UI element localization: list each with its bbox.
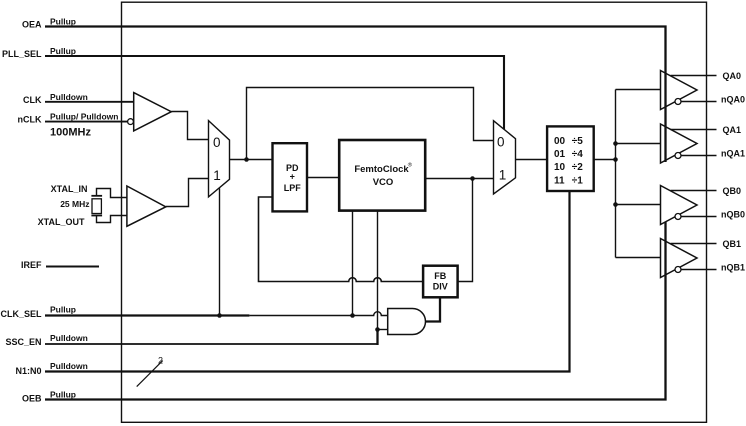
pin nCLK label [18,111,119,138]
bubble nQA0 [675,99,681,105]
svg-text:00: 00 [554,136,566,147]
pin OEB label [22,389,76,403]
wire QA0 out [671,75,717,77]
svg-text:FB: FB [434,271,446,281]
nCLK inversion bubble [128,119,134,125]
xtal oscillator buffer U2 [127,186,166,226]
wire QA1 out [671,129,717,131]
wire node A to mux M2 input 0 [247,88,494,160]
bubble nQA1 [675,153,681,159]
svg-text:QA1: QA1 [723,125,742,135]
chip boundary [122,2,707,422]
pin nQB0 label [721,209,745,219]
svg-text:FemtoClock: FemtoClock [354,164,409,175]
svg-text:QA0: QA0 [723,71,742,81]
wire bus to QA1 buffer [616,143,661,145]
wire nCLK [45,121,127,123]
pin nQA1 label [721,148,745,158]
bus width slash [137,361,163,387]
wire mux M1 output to PD [230,159,273,161]
svg-text:0: 0 [213,135,221,150]
svg-text:DIV: DIV [433,282,448,292]
svg-text:PLL_SEL: PLL_SEL [2,49,42,59]
wire U1 output to mux M1 input 0 [171,112,208,140]
pin IREF label [21,260,42,270]
wire OEB [45,222,666,400]
pin CLK_SEL label [0,305,76,319]
svg-text:CLK_SEL: CLK_SEL [0,309,42,319]
pin XTAL_OUT label [38,217,85,227]
pin QA1 label [723,125,742,135]
output buffer QB1 [661,239,698,278]
svg-text:nQB1: nQB1 [721,262,745,272]
output buffer QA1 [661,124,698,163]
svg-text:Pullup: Pullup [50,17,76,27]
FB DIV block [423,266,458,298]
svg-text:QB1: QB1 [723,239,742,249]
svg-text:nQA0: nQA0 [721,94,745,104]
svg-text:®: ® [408,162,413,169]
PD + LPF block [273,143,308,211]
svg-text:N1:N0: N1:N0 [15,366,41,376]
wire nQB1 out [681,269,717,271]
svg-text:÷4: ÷4 [572,149,583,160]
wire VCO output to mux M2 input 1 [425,178,493,180]
svg-text:OEB: OEB [22,394,42,404]
pin PLL_SEL label [2,46,76,59]
svg-text:Pullup/ Pulldown: Pullup/ Pulldown [50,111,118,121]
junction bus QA1 [613,141,618,146]
vertical B: VCO bottom to SSC_EN [377,211,379,330]
pin XTAL_IN label [51,184,88,194]
svg-text:SSC_EN: SSC_EN [5,337,41,347]
mux M2 [494,121,516,194]
crystal Y1 top plate [91,195,102,197]
svg-text:XTAL_OUT: XTAL_OUT [38,217,85,227]
svg-text:nQB0: nQB0 [721,209,745,219]
wire AND gate lower input [378,329,388,331]
mux M1 [209,121,230,197]
pin nQB1 label [721,262,745,272]
wire mux M1 select [219,188,221,315]
pin N1:N0 label [15,361,87,376]
wire output distribution bus [615,90,617,258]
wire CLK [45,101,134,103]
wire CLK_SEL thick part [45,314,249,316]
bus width label 2 [158,355,163,365]
AND gate G1 [388,309,426,335]
wire AND output to FB DIV [426,297,440,321]
pin QB0 label [723,186,742,196]
svg-text:2: 2 [158,355,163,365]
wire nQB0 out [681,216,717,218]
junction M1 select / CLK_SEL [217,313,222,318]
svg-text:Pullup: Pullup [50,305,76,315]
svg-text:QB0: QB0 [723,186,742,196]
wire mux M2 output to divider [516,159,548,161]
output divider block [547,126,594,191]
junction VCO output node [470,176,475,181]
input buffer U1 (CLK/nCLK) [134,93,172,131]
svg-text:XTAL_IN: XTAL_IN [51,184,88,194]
wire QB0 out [671,190,717,192]
junction vertical A / CLK_SEL [350,313,355,318]
svg-text:Pullup: Pullup [50,46,76,56]
wire nQA1 out [681,155,717,157]
wire bus to QB0 buffer [616,204,661,206]
svg-text:10: 10 [554,162,566,173]
wire bus to QA0 buffer [616,89,661,91]
svg-text:nQA1: nQA1 [721,148,745,158]
svg-text:nCLK: nCLK [18,115,42,125]
svg-text:+: + [290,172,295,182]
crystal Y1 body [92,199,101,214]
wire bus to QB1 buffer [616,257,661,259]
wire U2 output to mux M1 input 1 [166,179,209,207]
svg-text:CLK: CLK [23,95,42,105]
svg-text:÷2: ÷2 [572,162,583,173]
svg-text:LPF: LPF [284,183,302,193]
wire XTAL_OUT [97,216,127,223]
svg-text:01: 01 [554,149,566,160]
pin OEA label [22,17,76,30]
junction divider/bus [613,157,618,162]
wire PD to VCO [307,177,340,179]
bubble nQB1 [675,267,681,273]
wire N1:N0 [45,191,570,372]
pin SSC_EN label [5,333,87,347]
svg-text:÷5: ÷5 [572,136,583,147]
node A junction [244,157,249,162]
svg-text:1: 1 [213,168,221,183]
svg-text:÷1: ÷1 [572,175,583,186]
label 25 MHz [60,199,89,209]
pin QA0 label [723,71,742,81]
svg-text:VCO: VCO [373,177,394,188]
svg-text:1: 1 [499,168,507,183]
pin CLK label [23,92,88,105]
pin QB1 label [723,239,742,249]
wire divider output to distribution bus [594,159,616,161]
wire FB DIV output to PD feedback input (with hops) [259,197,424,282]
svg-text:100MHz: 100MHz [50,126,91,138]
svg-text:OEA: OEA [22,20,42,30]
wire SSC_EN riser [376,330,378,346]
pin nQA0 label [721,94,745,104]
output buffer QA0 [661,71,698,110]
FemtoClock VCO block [339,140,425,211]
wire PLL_SEL [45,56,504,130]
svg-text:Pullup: Pullup [50,389,76,399]
wire QB1 out [671,243,717,245]
junction bus QB0 [613,202,618,207]
svg-text:0: 0 [497,134,505,149]
wire OEA [45,27,666,163]
wire IREF stub [46,266,99,268]
output buffer QB0 [661,186,698,225]
svg-text:Pulldown: Pulldown [50,361,88,371]
wire VCO output down to FB DIV [458,179,473,282]
junction SSC_EN / AND input [375,327,380,332]
wire CLK_SEL thin part with hop [249,312,387,316]
crystal Y1 bottom plate [91,215,102,217]
svg-text:IREF: IREF [21,260,42,270]
svg-text:Pulldown: Pulldown [50,333,88,343]
wire XTAL_IN [97,189,127,198]
svg-text:25 MHz: 25 MHz [60,199,89,209]
wire SSC_EN [45,343,379,345]
svg-text:Pulldown: Pulldown [50,92,88,102]
vertical A: VCO bottom to CLK_SEL [352,211,354,316]
wire nQA0 out [681,101,717,103]
bubble nQB0 [675,214,681,220]
svg-text:11: 11 [554,175,565,186]
